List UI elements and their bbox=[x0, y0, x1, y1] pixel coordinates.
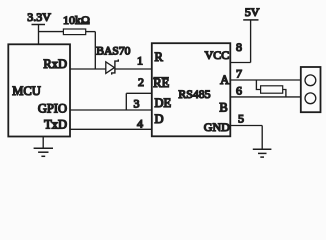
svg-text:3: 3 bbox=[134, 96, 140, 110]
resistor termination body bbox=[261, 86, 283, 93]
wire tee to pin2 RE bbox=[126, 92, 152, 94]
wire tee GPIO up to RE bbox=[125, 93, 127, 110]
svg-text:RE: RE bbox=[153, 76, 169, 90]
wire termination stub from A bbox=[256, 80, 260, 90]
ground below MCU bar3 bbox=[41, 155, 45, 157]
ground below chip bar2 bbox=[258, 152, 267, 154]
svg-text:VCC: VCC bbox=[205, 48, 230, 62]
wire diode cathode to pin1 R bbox=[115, 68, 152, 70]
svg-text:GND: GND bbox=[204, 120, 230, 134]
RS485 transceiver U2 box bbox=[152, 43, 231, 136]
connector terminal circle A bbox=[305, 75, 316, 86]
svg-text:B: B bbox=[219, 101, 227, 115]
ground below MCU bar1 bbox=[34, 147, 53, 149]
ground below MCU stem bbox=[42, 137, 44, 148]
svg-text:BAS70: BAS70 bbox=[96, 45, 130, 58]
svg-text:R: R bbox=[155, 50, 164, 64]
svg-text:1: 1 bbox=[137, 54, 143, 68]
wire resistor to corner bbox=[86, 31, 96, 33]
power 5V rail bar bbox=[243, 19, 258, 21]
wire 3.3V stem to MCU top bbox=[38, 25, 40, 45]
wire termination stub to B bbox=[283, 90, 286, 97]
wire GND drop bbox=[261, 126, 263, 149]
svg-text:8: 8 bbox=[236, 40, 242, 54]
ground below chip bar1 bbox=[253, 148, 272, 150]
wire B pin6 to connector bbox=[230, 96, 300, 98]
svg-text:4: 4 bbox=[137, 116, 143, 130]
svg-text:GPIO: GPIO bbox=[38, 101, 67, 115]
resistor 10k body bbox=[63, 29, 85, 35]
connector terminal circle B bbox=[305, 93, 316, 104]
svg-text:RxD: RxD bbox=[43, 57, 67, 71]
svg-text:6: 6 bbox=[236, 84, 242, 98]
power 3.3V rail bar bbox=[32, 24, 46, 26]
svg-text:A: A bbox=[220, 73, 229, 87]
wire GND pin5 bbox=[230, 125, 262, 127]
chip pin label RE overline bbox=[153, 76, 169, 78]
MCU U1 box bbox=[8, 44, 70, 136]
wire 5V stem bbox=[250, 20, 252, 63]
svg-text:D: D bbox=[155, 112, 164, 126]
ground below MCU bar2 bbox=[38, 151, 48, 153]
connector J1 box bbox=[301, 67, 321, 112]
ground below chip bar3 bbox=[260, 156, 264, 158]
svg-text:2: 2 bbox=[138, 75, 144, 89]
wire 3.3V to resistor bbox=[39, 31, 64, 33]
wire pullup drop to RxD net bbox=[94, 32, 96, 69]
wire RxD from MCU to diode anode bbox=[70, 68, 106, 70]
svg-text:RS485: RS485 bbox=[178, 87, 210, 101]
diode BAS70 schottky cathode bar bbox=[112, 59, 119, 74]
svg-text:10kΩ: 10kΩ bbox=[63, 13, 90, 27]
svg-text:3.3V: 3.3V bbox=[27, 10, 51, 24]
svg-text:TxD: TxD bbox=[44, 118, 67, 132]
svg-text:DE: DE bbox=[155, 96, 172, 110]
wire TxD to pin4 D bbox=[70, 128, 152, 130]
svg-text:5: 5 bbox=[238, 112, 244, 126]
svg-text:MCU: MCU bbox=[12, 84, 40, 98]
wire A pin7 to connector bbox=[230, 79, 300, 81]
svg-text:7: 7 bbox=[236, 67, 242, 81]
wire VCC pin8 to 5V bbox=[230, 62, 250, 64]
wire GPIO to pin3 DE bbox=[70, 109, 152, 111]
diode BAS70 triangle bbox=[106, 62, 115, 74]
svg-text:5V: 5V bbox=[245, 5, 260, 19]
